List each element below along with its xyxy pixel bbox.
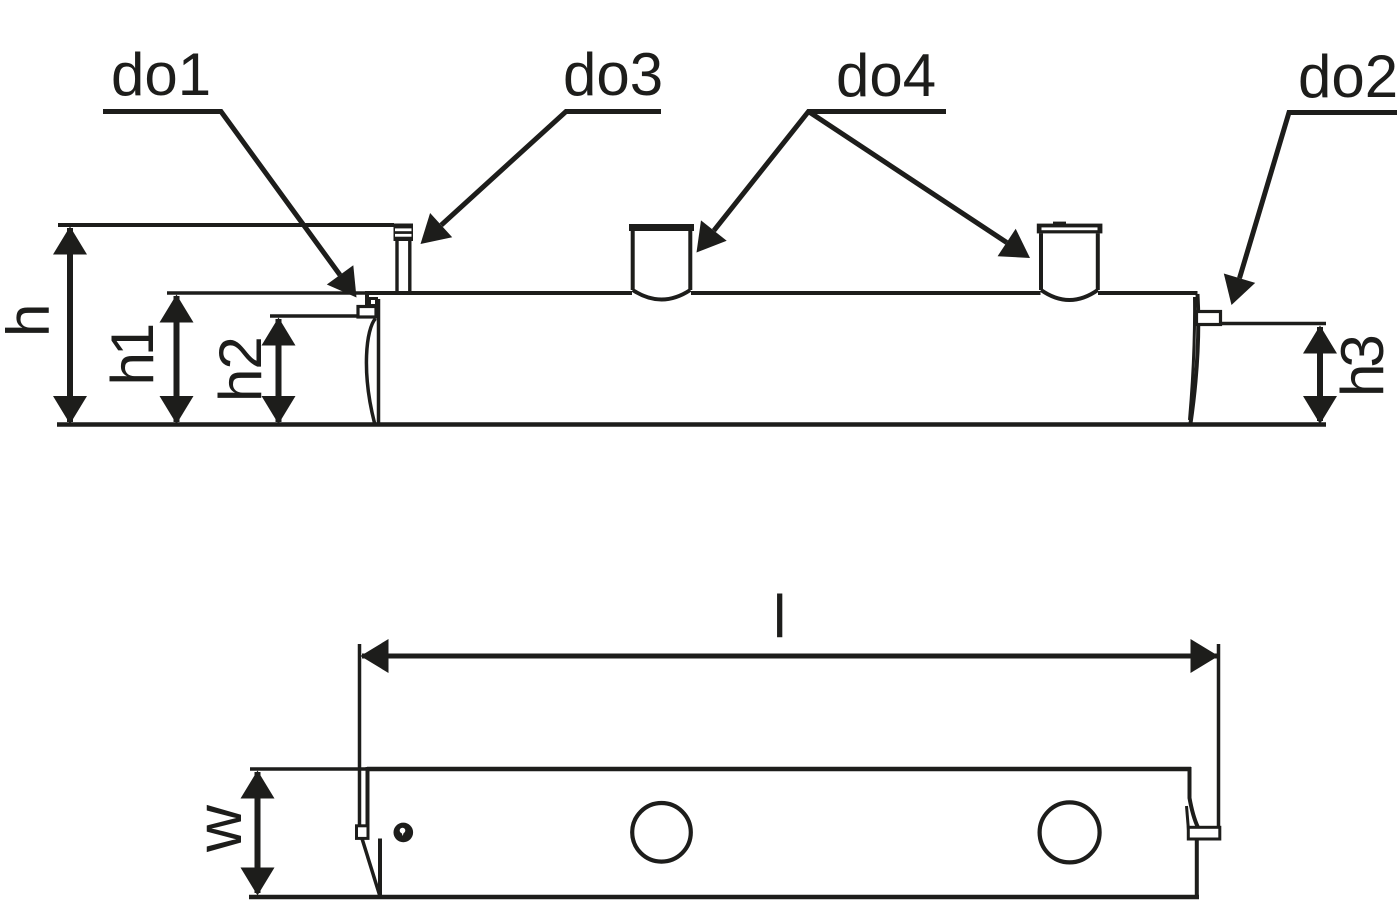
svg-text:do1: do1: [111, 41, 211, 108]
dimension stem h: [67, 228, 73, 422]
arrowhead h down: [53, 396, 87, 424]
baseline: tank bottom line extended for h/h1/h2/h3 dimensions: [57, 422, 1326, 427]
pipe do4 #1 cap (solid): [629, 224, 694, 231]
tank right end cap inner edge line: [1190, 297, 1195, 420]
nipple fitting do2 (side view): [1197, 312, 1221, 325]
plan view right edge below nipple: [1195, 839, 1199, 898]
svg-text:h1: h1: [99, 325, 166, 385]
pipe do3 walls: [397, 241, 410, 292]
svg-text:h2: h2: [207, 337, 274, 402]
plan view top line: [367, 767, 1191, 772]
arrowhead h up: [53, 227, 87, 255]
pipe do4 #2 cap (outlined): [1037, 222, 1103, 234]
pipe do4 #2 saddle arc: [1041, 290, 1098, 300]
small drain hole (plan view): [394, 823, 414, 843]
svg-text:w: w: [182, 804, 255, 853]
extension line h1 (collinear with tank top): [167, 291, 366, 295]
nipple do2 (plan view): [1188, 827, 1220, 839]
leader line do3: [441, 112, 661, 226]
plan view left edge: [366, 767, 370, 826]
arrowhead h1 up: [160, 295, 194, 323]
arrowhead l left: [361, 639, 389, 673]
tank top line (side view, broken at do4 pipes): [366, 291, 1198, 295]
extension line w (top): [250, 767, 367, 771]
tank left end dished profile curve: [366, 319, 375, 424]
plan view left end inner line: [378, 839, 382, 898]
plan view right end inner line: [1187, 806, 1189, 834]
dimension line l: [362, 654, 1217, 659]
nipple do1 (plan view): [357, 826, 369, 839]
svg-text:do2: do2: [1298, 43, 1398, 110]
svg-text:h: h: [0, 304, 62, 337]
leader line do4 (right branch): [809, 112, 1007, 243]
leader line do4 (left branch): [714, 112, 946, 231]
extension line h2: [270, 314, 357, 318]
arrowhead h3 up: [1303, 326, 1337, 354]
manhole circle 2 (plan view): [1040, 802, 1100, 862]
tank left end cap step detail: [370, 299, 377, 306]
leader line do1: [103, 112, 340, 276]
arrowhead do3: [421, 213, 453, 244]
tank left end cap outer corner (side view): [365, 291, 369, 306]
dimension stem h3: [1317, 327, 1323, 421]
leader line do2: [1240, 113, 1398, 279]
svg-text:do4: do4: [836, 42, 936, 109]
pipe do4 #1 walls: [633, 231, 691, 291]
arrowhead do4 left: [697, 220, 727, 252]
plan view right edge: [1190, 767, 1198, 827]
tank left end inner edge line: [377, 299, 381, 423]
extension line h (top, at do3 cap level): [58, 223, 394, 227]
arrowhead h2 up: [262, 318, 296, 346]
arrowhead l right: [1191, 639, 1219, 673]
extension line l left: [358, 644, 362, 827]
dimension stem h2: [276, 319, 282, 422]
dimension stem h1: [174, 296, 180, 422]
svg-text:l: l: [773, 583, 786, 650]
arrowhead do1: [327, 265, 357, 297]
threaded cap of pipe do3: [394, 224, 414, 242]
arrowhead w up: [241, 771, 275, 799]
flange fitting do1 (side view): [358, 307, 376, 318]
arrowhead h1 down: [160, 396, 194, 424]
manhole circle 1 (plan view): [632, 803, 691, 862]
tank right end cap outer curve (side view): [1191, 294, 1199, 424]
pipe do4 #2 walls: [1041, 233, 1098, 290]
svg-text:do3: do3: [563, 41, 663, 108]
arrowhead h3 down: [1303, 396, 1337, 424]
arrowhead h2 down: [262, 396, 296, 424]
pipe do4 #1 saddle arc: [633, 290, 691, 300]
extension line h3: [1221, 322, 1326, 326]
plan view bottom line: [249, 895, 1199, 900]
dimension stem w: [255, 772, 261, 893]
svg-text:h3: h3: [1329, 337, 1396, 397]
arrowhead do2: [1224, 274, 1255, 306]
extension line l right: [1217, 644, 1221, 828]
arrowhead w down: [241, 868, 275, 896]
arrowhead do4 right: [998, 229, 1030, 258]
plan view left dished end diagonal: [362, 839, 381, 899]
